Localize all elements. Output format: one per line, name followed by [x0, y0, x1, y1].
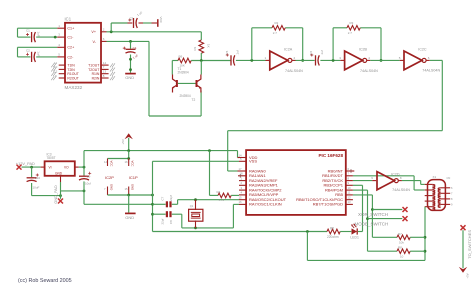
svg-text:+5V: +5V — [466, 273, 470, 278]
pad +12V_PAD — [16, 161, 35, 170]
svg-text:C1+: C1+ — [67, 27, 74, 31]
capacitor C2 — [26, 48, 41, 62]
SECTION: MAX232 — [18, 10, 202, 116]
wire VO net — [75, 166, 79, 168]
pin VDD (14) — [238, 153, 258, 160]
pin RB4/PGM (10) — [325, 186, 353, 193]
svg-text:74ALS04N: 74ALS04N — [392, 188, 410, 192]
svg-text:V+: V+ — [91, 30, 96, 34]
svg-text:10uf: 10uf — [85, 182, 91, 186]
pin VSS (5) — [239, 157, 257, 164]
wire IC2C output to PIC RA0 — [430, 59, 443, 61]
pin X1-3 — [425, 195, 433, 197]
wire V- net — [107, 40, 150, 42]
pin RB5 (11) — [335, 191, 353, 198]
svg-text:RB7/T1OSI/PGD: RB7/T1OSI/PGD — [313, 202, 343, 207]
svg-text:16: 16 — [239, 200, 243, 204]
svg-text:+12V_PAD: +12V_PAD — [16, 161, 35, 166]
wire +5V vertical — [83, 151, 85, 176]
pin X1-6 — [441, 187, 451, 189]
wire gnd vertical at crystal — [152, 195, 154, 232]
svg-text:VCC: VCC — [159, 17, 163, 24]
capacitor C3 — [128, 10, 143, 28]
pin X1-7 — [441, 192, 451, 194]
wire regulator GND stub — [60, 182, 62, 191]
capacitor C5 — [225, 50, 240, 65]
transistor T2 2N3904 — [180, 75, 202, 102]
pin R2OUT (9) — [51, 74, 79, 81]
pin RA1/AN1 (18) — [238, 172, 266, 179]
svg-text:IC2C: IC2C — [418, 48, 427, 52]
wire +5V rail — [84, 150, 238, 152]
wire IC2B feedback loop — [332, 28, 334, 61]
resistor R3 — [347, 21, 360, 35]
ground GND under C4 — [125, 74, 136, 80]
capacitor C4 — [123, 41, 139, 72]
svg-text:18: 18 — [240, 172, 244, 176]
svg-text:74ALS04N: 74ALS04N — [360, 69, 378, 73]
svg-text:GND: GND — [125, 75, 134, 80]
svg-text:PIC 16F628: PIC 16F628 — [318, 153, 343, 158]
wire IC2D out to X1 pin1 — [402, 180, 421, 182]
wire VCC drop — [128, 151, 130, 159]
svg-text:R1: R1 — [193, 46, 197, 50]
svg-text:10: 10 — [348, 186, 352, 190]
IC IC1 MAX232 — [65, 17, 102, 90]
pin T1IN (11) — [51, 61, 75, 68]
wire C6 to IC2B input — [320, 59, 340, 61]
svg-text:C6: C6 — [309, 50, 313, 54]
resistor R6 — [172, 55, 231, 68]
pad TO_SWITCHES — [459, 225, 472, 278]
svg-text:R3: R3 — [350, 21, 354, 25]
svg-text:1uF: 1uF — [37, 51, 41, 56]
SECTION: CRYSTAL — [151, 190, 327, 232]
SECTION: INVERTERS — [228, 21, 443, 171]
pin R1IN (13) — [92, 70, 115, 77]
pad GND_PAD — [53, 185, 63, 204]
svg-text:+5V: +5V — [121, 139, 125, 144]
wire C10 gnd link — [32, 195, 61, 197]
svg-text:MODE_SWITCH: MODE_SWITCH — [355, 221, 389, 226]
power pins IC1P — [125, 159, 139, 196]
pin T2OUT (7) — [88, 65, 115, 72]
svg-text:GND: GND — [125, 215, 134, 220]
svg-text:R4: R4 — [217, 190, 221, 194]
svg-text:220ohm: 220ohm — [327, 235, 339, 239]
resistor R5 — [327, 226, 351, 239]
regulator IC3 7805T — [45, 152, 75, 182]
wire IC2B out to IC2C input — [370, 59, 399, 61]
wire RB5 net — [353, 194, 373, 196]
svg-text:(cc) Rob Seward 2005: (cc) Rob Seward 2005 — [18, 278, 72, 284]
svg-text:22pf: 22pf — [169, 195, 173, 201]
wire gnd link bottom — [306, 230, 309, 233]
crystal Q1 — [189, 200, 203, 228]
svg-text:2.7: 2.7 — [273, 31, 278, 35]
pin R1OUT (12) — [51, 70, 79, 77]
svg-text:14: 14 — [104, 160, 108, 164]
svg-text:.1uf: .1uf — [236, 50, 240, 55]
SECTION: RIGHT — [306, 172, 472, 279]
svg-text:VCC: VCC — [110, 161, 114, 167]
svg-text:2.7: 2.7 — [348, 31, 353, 35]
transistor T1 2N3904 (mirrored) — [172, 67, 189, 93]
svg-text:GND: GND — [110, 184, 114, 190]
wire IC2A out to C6 — [296, 59, 315, 61]
pin X1-8 — [441, 198, 451, 200]
inverter IC2D 74ALS04N — [371, 172, 410, 193]
svg-text:TO_SWITCHES: TO_SWITCHES — [467, 230, 472, 259]
pad XOR_SWITCH — [358, 207, 408, 217]
supply +5V arrow — [121, 133, 133, 150]
wire T2 collector — [200, 61, 202, 75]
pin RB3/CCP1 (9) — [323, 181, 352, 188]
svg-text:GND_PAD: GND_PAD — [53, 185, 58, 204]
pin RB0/INT (6) — [328, 167, 355, 174]
wire C2 loop net — [18, 46, 58, 48]
svg-text:R6: R6 — [179, 55, 183, 59]
pin RA4/T0CKI/CMP2 (3) — [239, 186, 282, 193]
wire +12V net — [22, 166, 41, 168]
svg-text:.1uf: .1uf — [320, 50, 324, 55]
pin RA6/OSC2/CLKOUT (15) — [239, 196, 287, 203]
pin C1- (3) — [57, 33, 74, 40]
svg-text:R7: R7 — [398, 232, 402, 236]
pin RB2/TX/CK (8) — [322, 176, 353, 183]
svg-text:C2-: C2- — [67, 55, 74, 59]
pad MODE_SWITCH — [355, 216, 408, 226]
svg-text:C10: C10 — [35, 176, 41, 180]
svg-text:R8: R8 — [398, 246, 402, 250]
node IC2A input junction — [250, 59, 253, 62]
wire gnd rail to crystal area — [84, 203, 153, 205]
wire X1 pin5 to gnd — [424, 207, 426, 261]
svg-text:IC2P: IC2P — [105, 175, 114, 180]
wire T1-T2 base link — [178, 82, 196, 84]
pin V+ (2) — [91, 27, 106, 34]
pin RA7/OSC1/CLKIN (16) — [239, 200, 282, 207]
SECTION: PIC — [238, 150, 355, 215]
svg-text:C1: C1 — [26, 29, 30, 33]
capacitor C1 — [26, 29, 41, 43]
pin C2+ (4) — [57, 43, 74, 50]
svg-text:2N3904: 2N3904 — [178, 71, 189, 75]
svg-text:IC2B: IC2B — [359, 48, 368, 52]
svg-text:LED1: LED1 — [350, 235, 359, 239]
pin RB7/T1OSI/PGD (13) — [313, 200, 353, 207]
pin X1-9 — [441, 203, 451, 205]
svg-text:VSS: VSS — [249, 159, 257, 164]
svg-text:VO: VO — [64, 165, 69, 169]
capacitor C8 — [153, 211, 182, 224]
pin RB6/T1OSO/T1CLKI/PGC (12) — [296, 196, 353, 203]
svg-text:Q1: Q1 — [190, 204, 194, 208]
SECTION: NOISE — [172, 32, 266, 102]
svg-text:13: 13 — [348, 200, 352, 204]
svg-text:C3: C3 — [129, 17, 133, 21]
wire RB2 to IC2D — [353, 180, 372, 182]
svg-text:XOR_SWITCH: XOR_SWITCH — [358, 212, 388, 217]
capacitor C10 — [27, 167, 41, 196]
node IC2B output junction — [380, 59, 383, 62]
wire IC2A feedback loop — [251, 28, 253, 61]
resistor R8 — [368, 246, 426, 259]
wire RB3 to LED — [353, 184, 363, 186]
pin RA3/AN3/CMP1 (2) — [239, 181, 279, 188]
svg-text:C2: C2 — [26, 48, 30, 52]
svg-text:GND: GND — [55, 171, 63, 175]
pin T1OUT (14) — [88, 61, 115, 68]
capacitor C6 — [309, 50, 324, 65]
resistor R2 — [272, 21, 285, 35]
wire OSC1 net — [177, 200, 179, 205]
resistor R7 — [372, 232, 425, 245]
svg-text:1K: 1K — [206, 44, 210, 48]
svg-text:C8: C8 — [169, 220, 173, 224]
node junction on C1- net — [54, 36, 57, 39]
svg-text:10: 10 — [400, 255, 404, 259]
SECTION: POWERGATES — [104, 133, 239, 220]
ground GND symbol — [125, 195, 136, 220]
svg-text:74ALS04N: 74ALS04N — [285, 69, 303, 73]
svg-text:R2OUT: R2OUT — [67, 76, 79, 80]
svg-text:11: 11 — [348, 191, 351, 195]
SECTION: REGULATOR — [16, 151, 239, 205]
wire C5 to IC2A input — [236, 59, 266, 61]
wire RB4 net — [353, 189, 368, 191]
resistor R4 — [210, 190, 240, 202]
wire V+ net — [107, 31, 202, 33]
wire RB1 to X1 pin2 — [353, 175, 414, 177]
pin X1-5 — [425, 206, 433, 208]
power pins IC2P — [104, 159, 114, 196]
inverter IC2B 74ALS04N — [339, 48, 378, 73]
svg-text:15: 15 — [239, 196, 243, 200]
svg-text:16: 16 — [125, 160, 129, 164]
pin X1-4 — [425, 200, 433, 202]
svg-text:10k: 10k — [399, 241, 404, 245]
pin V- (6) — [93, 37, 107, 44]
wire gnd long rail — [153, 231, 328, 233]
svg-text:VCC: VCC — [131, 161, 135, 167]
wire C1 loop net — [18, 27, 58, 29]
wire VSS net — [153, 160, 240, 162]
SECTION: LED — [327, 224, 363, 240]
wire C9 bottom to gnd rail — [83, 181, 85, 204]
diode LED1 — [350, 224, 362, 240]
supply VCC bar — [139, 17, 164, 27]
pin RB1/RX/DT (7) — [322, 172, 353, 179]
svg-text:12: 12 — [348, 196, 352, 200]
svg-text:C9: C9 — [87, 175, 91, 179]
svg-text:C1-: C1- — [67, 36, 74, 40]
IC IC4 PIC 16F628 — [246, 150, 346, 215]
inverter IC2A 74ALS04N — [265, 48, 304, 73]
wire gnd gate rail — [108, 194, 153, 196]
svg-text:10uF: 10uF — [33, 185, 40, 189]
connector X1 — [425, 175, 453, 210]
pin R2IN (8) — [92, 74, 115, 81]
svg-text:C7: C7 — [161, 196, 165, 200]
svg-text:C2+: C2+ — [67, 46, 74, 50]
node IC2A output junction — [301, 59, 304, 62]
svg-text:17: 17 — [239, 167, 243, 171]
svg-text:CN: CN — [447, 176, 451, 180]
svg-text:RA7/OSC1/CLKIN: RA7/OSC1/CLKIN — [249, 202, 282, 207]
wire C3 branch — [110, 23, 112, 32]
svg-text:IC2A: IC2A — [284, 48, 293, 52]
wire R4 +5V drop — [208, 149, 211, 152]
svg-text:MAX232: MAX232 — [65, 85, 83, 90]
pin T2IN (10) — [51, 65, 75, 72]
svg-text:GND: GND — [131, 184, 135, 190]
inverter IC2C 74ALS04N — [399, 48, 441, 73]
svg-text:74ALS04N: 74ALS04N — [422, 69, 440, 73]
svg-text:R2: R2 — [275, 21, 279, 25]
svg-text:R2IN: R2IN — [92, 76, 100, 80]
svg-text:1uF: 1uF — [37, 32, 41, 37]
pin RA5/MCLR/VPP (4) — [239, 191, 279, 198]
svg-text:C5: C5 — [225, 50, 229, 54]
node noise junction — [200, 59, 203, 62]
svg-text:VI: VI — [49, 165, 52, 169]
svg-text:IC1: IC1 — [65, 17, 72, 22]
svg-text:15: 15 — [125, 187, 129, 191]
pin RA0/AN0 (17) — [238, 167, 267, 174]
svg-text:T2: T2 — [192, 98, 196, 102]
svg-text:IC1P: IC1P — [129, 175, 138, 180]
pin C2- (5) — [57, 53, 74, 60]
svg-text:IC2D: IC2D — [391, 172, 400, 176]
svg-text:R5: R5 — [330, 226, 334, 230]
node +5V rail junction — [127, 149, 130, 152]
pin X1-1 — [425, 183, 433, 185]
node IC2B input junction — [332, 59, 335, 62]
pin X1-2 — [425, 189, 433, 191]
svg-text:2N3904: 2N3904 — [180, 94, 191, 98]
pin RA2/AN2/VREF (1) — [239, 176, 278, 183]
svg-text:7805T: 7805T — [47, 156, 56, 160]
svg-text:4.7k: 4.7k — [219, 198, 225, 202]
wire R6 to T1 collector — [171, 61, 173, 75]
svg-text:22pf: 22pf — [161, 218, 165, 224]
capacitor C9 — [79, 172, 91, 186]
resistor R1 — [193, 32, 210, 61]
pin C1+ (1) — [57, 24, 74, 31]
svg-text:X1: X1 — [433, 175, 437, 179]
wire OSC2 net — [181, 214, 183, 228]
capacitor C7 — [153, 195, 178, 207]
svg-text:C4: C4 — [133, 46, 137, 50]
